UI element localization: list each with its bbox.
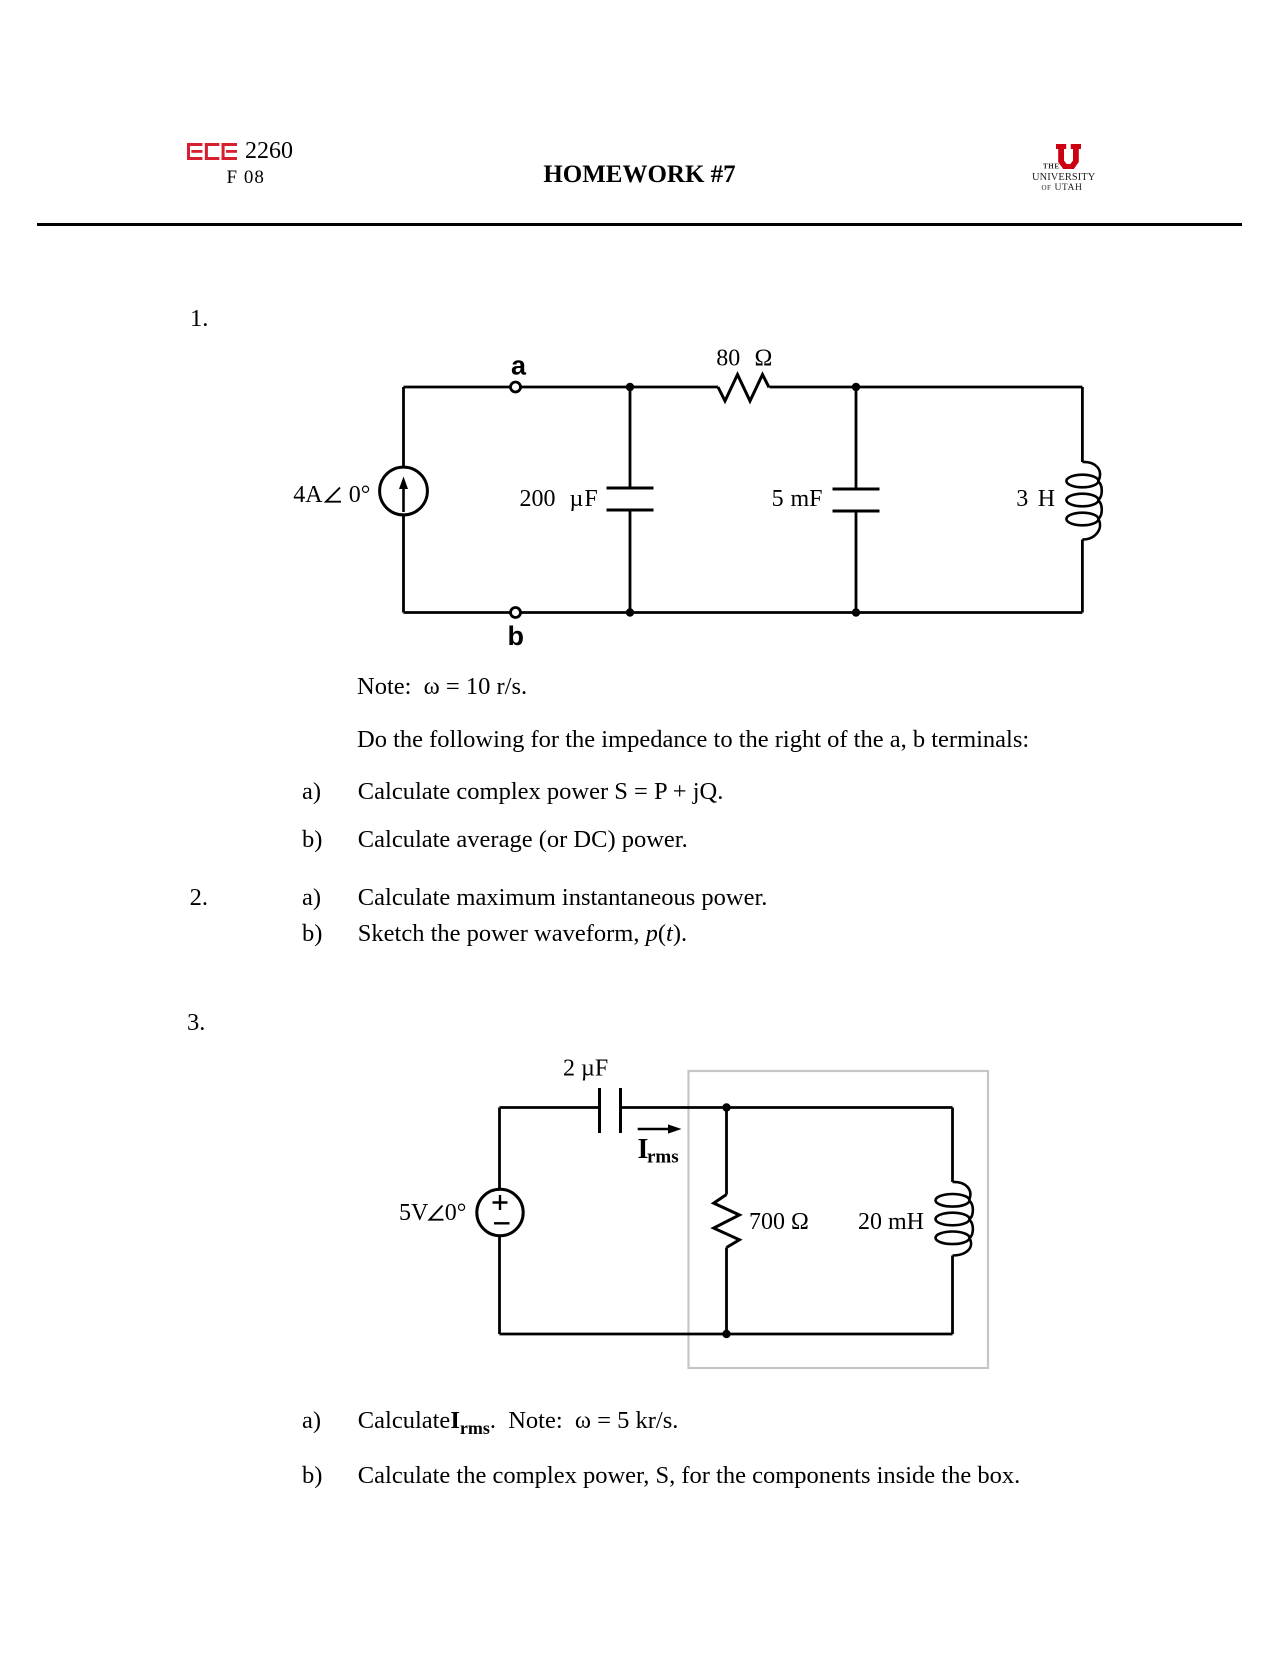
svg-text:5V: 5V [399,1200,429,1226]
note line [357,675,527,700]
junction dot c1 bottom C1 [626,608,634,616]
box around components (gray) [689,1071,989,1368]
junction dot c1 top C2 [852,383,860,391]
wire: c2 top wire right of capacitor [622,1106,953,1109]
wire: capacitor C2 branch upper [855,387,858,489]
junction dot c1 bottom C2 [852,608,860,616]
inductor 20mH coil [936,1182,973,1256]
svg-text:H: H [1038,486,1055,512]
svg-text:0°: 0° [445,1200,467,1226]
svg-text:2 µF: 2 µF [563,1056,608,1082]
wire: c2 right wire lower [951,1256,954,1335]
voltage source plus sign [493,1195,508,1210]
wire: capacitor C2 branch lower [855,511,858,613]
wire: c1 top wire left segment (a-node to resistor) [404,386,719,389]
item 1b [302,828,322,853]
wire: c2 top wire left of capacitor [500,1106,599,1109]
wire: capacitor C1 branch upper [629,387,632,488]
svg-text:mF: mF [791,486,823,512]
current source arrow [402,484,405,512]
instruction line [357,728,1029,753]
svg-text:4A: 4A [293,482,323,508]
wire: c1 top wire right segment [770,386,1083,389]
svg-text:Ω: Ω [755,346,773,372]
capacitor 5mF plates [833,489,880,511]
wire: c1 bottom wire [404,611,1083,614]
wire: c1 right wire lower [1081,540,1084,613]
horizontal rule [37,223,1242,226]
item 2b [302,922,322,947]
inductor 3H coil [1066,462,1101,540]
current source 4A circle [380,467,428,515]
University of Utah block U logo [1028,142,1100,194]
junction dot c2 bottom [722,1330,730,1338]
voltage source 5V circle [477,1189,523,1235]
semester F 08 [227,168,265,187]
item 3b [302,1464,322,1489]
capacitor 200uF plates [607,488,654,510]
wire: c2 left wire [498,1108,501,1335]
junction dot c2 top [722,1103,730,1111]
svg-text:5: 5 [772,486,784,512]
wire: capacitor C1 branch lower [629,510,632,613]
wire: resistor 700 branch lower [725,1248,728,1335]
course number 2260 [245,139,293,163]
wire: c2 bottom wire [500,1333,953,1336]
wire: c1 right wire upper [1081,387,1084,462]
svg-text:a: a [511,351,527,381]
svg-text:b: b [508,621,525,651]
svg-text:80: 80 [716,346,740,372]
svg-text:µF: µF [570,486,599,512]
wire: c2 right wire upper [951,1108,954,1183]
voltage source minus sign [494,1222,510,1224]
svg-text:0°: 0° [349,482,371,508]
capacitor 2uF plates [600,1088,621,1133]
item 3a [302,1409,321,1434]
wire: c1 left wire [402,387,405,613]
ECE department logo (red) [187,143,237,160]
wire: resistor 700 branch upper [725,1108,728,1195]
item 1a [302,780,321,805]
item 2 number [190,886,208,911]
title HOMEWORK #7 [0,162,1280,187]
item 1 number [190,307,208,332]
node b terminal circle [511,608,521,618]
node a terminal circle [511,382,521,392]
resistor 700ohm body [714,1195,740,1248]
item 3 number [187,1011,205,1036]
svg-text:700 Ω: 700 Ω [749,1209,809,1235]
item 2a [302,886,321,911]
svg-text:200: 200 [520,486,556,512]
current arrow Irms [638,1128,669,1131]
svg-text:rms: rms [647,1147,679,1168]
resistor 80ohm body [718,375,769,402]
svg-text:3: 3 [1016,486,1028,512]
svg-text:20 mH: 20 mH [858,1209,924,1235]
junction dot c1 top C1 [626,383,634,391]
